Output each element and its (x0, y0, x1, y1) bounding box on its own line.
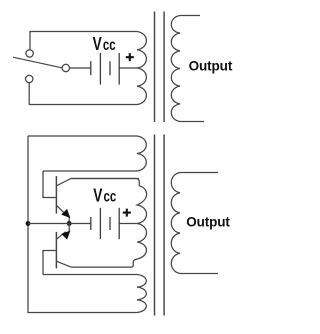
transformer T1 core (155, 12, 165, 123)
transformer T2 core (155, 135, 165, 316)
transistor Q2 emitter with arrow (57, 232, 66, 239)
switch SW1 upper throw contact (26, 50, 33, 57)
wire : centre rail from left bus to battery B2 negative (28, 223, 91, 225)
transformer T2 main primary winding (collector to collector, centre tapped) (71, 179, 147, 268)
wire : lower contact down to bottom rail (28, 83, 30, 105)
arrowhead of Q1 emitter (62, 210, 69, 217)
transformer T1 secondary winding (171, 16, 204, 122)
switch SW1 common pole contact (62, 64, 69, 71)
wire : top rail of transistor circuit + transformer T2 base feedback winding (upper) (28, 136, 146, 171)
wire : top rail of vibrator circuit + transformer T1 primary winding (29, 32, 146, 105)
svg-text:V: V (93, 34, 102, 54)
battery B1 Vcc : plates (91, 53, 119, 85)
svg-text:V: V (93, 185, 102, 205)
wire : Q2 base to lower feedback winding (43, 251, 56, 275)
node : left rail / centre rail junction dot (26, 221, 31, 226)
wire : battery B2 positive to transformer T2 primary centre tap (119, 223, 137, 225)
transistor Q2 collector (57, 261, 71, 267)
svg-text:cc: cc (104, 188, 117, 205)
svg-text:Output: Output (189, 59, 233, 74)
arrowhead of Q2 emitter (62, 231, 69, 238)
label + (battery B1 positive terminal) (126, 53, 134, 61)
svg-text:cc: cc (103, 36, 116, 53)
svg-text:Output: Output (186, 215, 230, 230)
node : emitters / battery negative junction dot (67, 221, 72, 226)
wire : left vertical from top rail down to switch upper contact (29, 31, 31, 50)
battery B2 Vcc : plates (91, 208, 119, 239)
transistor Q1 collector (57, 179, 139, 186)
switch SW1 arm (vibrating reed) (13, 57, 62, 68)
label + (battery B2 positive terminal) (123, 209, 131, 217)
wire : left vertical rail (battery negative bus) (27, 136, 29, 313)
transformer T2 base feedback winding (lower) + bottom rail (28, 275, 146, 313)
transistor Q2 (NPN, lower) base bar (55, 232, 57, 269)
transformer T2 secondary winding (171, 173, 218, 274)
transistor Q1 (NPN, upper) base bar (55, 176, 57, 214)
switch SW1 lower throw contact (26, 75, 33, 82)
wire : battery positive to transformer T1 primary centre tap (119, 67, 137, 69)
transistor Q1 emitter with arrow (57, 206, 67, 216)
wire : upper feedback winding down to Q1 base (43, 171, 56, 198)
wire : switch common to battery negative (70, 67, 92, 69)
